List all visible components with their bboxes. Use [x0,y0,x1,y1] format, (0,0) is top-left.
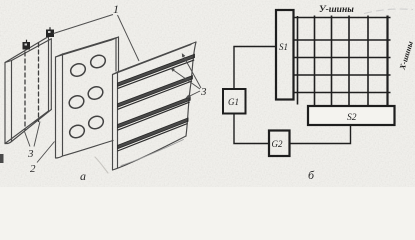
plate P3 bottom edge [113,136,187,170]
leader 1b [118,15,140,61]
hole H1 [69,62,87,79]
wire Xg3 [331,16,333,106]
svg-text:а: а [80,169,86,183]
plate P2 left side face [56,54,63,158]
terminal T2 [46,27,54,37]
bus bar S1a [118,54,195,88]
scan curve top-right [364,9,413,14]
svg-text:G2: G2 [272,139,283,149]
wire Yg3 [294,57,391,59]
svg-text:S2: S2 [347,113,357,123]
svg-text:2: 2 [30,163,36,175]
leader 3c [182,53,201,88]
plate P2 bottom edge [63,141,114,157]
bus bar S2a [118,76,193,110]
leader 2a [37,142,55,163]
wire Xg4 [348,16,350,106]
block G2 [269,131,290,157]
plate P3 bottom smudge [95,157,108,173]
hole H6 [87,114,105,131]
plate P1 bottom edge [5,110,51,144]
leader 1a [54,15,114,34]
plate P1 top edge [5,37,51,63]
plate P2 (ferrite plate with holes) [56,37,119,158]
plate P2 top edge [56,37,119,57]
leader 3a [25,132,31,147]
wire Yg5 [294,92,391,94]
bus B2 dashed [38,43,40,122]
leader 3e [186,91,200,98]
svg-text:3: 3 [27,148,34,160]
wire Xg5 [367,16,369,106]
plate P2 right edge [116,37,119,72]
svg-text:S1: S1 [279,42,288,52]
wire G1-S1 [234,47,276,90]
plate P3 top edge [113,42,197,75]
block G1 [223,89,246,114]
wire Yg1 [294,17,391,19]
svg-text:У-шины: У-шины [319,5,354,15]
bus bar S3a [118,97,191,130]
wire Yg2 [294,39,391,41]
wire G2-S2 [290,125,351,144]
plate P1 left side face [5,61,12,144]
leader 3b [34,122,40,147]
bus bar S4a [118,118,189,151]
wire Xg2 [314,16,316,106]
grid Y/X buses [294,16,391,106]
scan mark bottom-left [0,154,4,163]
plate P3 left side face [113,72,118,170]
hole H5 [68,123,86,140]
svg-text:б: б [308,168,315,182]
plate P3 right edge torn [186,42,196,136]
svg-text:1: 1 [113,2,119,16]
bus B1 dashed [24,52,26,130]
svg-text:G1: G1 [228,97,239,107]
block S2 [308,106,395,125]
hole H4 [86,85,104,102]
wire Xg1 [297,16,299,105]
hole H3 [67,94,85,111]
leader 3d [171,68,200,89]
terminal T1 [23,40,31,50]
plate P1 right edge [49,37,52,112]
paper background [0,0,415,187]
wire G1-G2 [234,114,269,144]
plate P3 (horizontal bus plate) [95,42,196,173]
block S1 [276,10,294,100]
wire Yg4 [294,74,391,76]
hole H2 [89,53,107,70]
wire Xg6 [386,16,388,106]
